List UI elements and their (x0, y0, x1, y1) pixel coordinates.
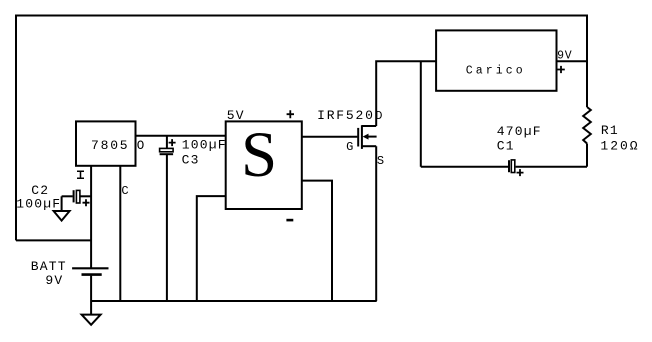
wire: S box output to MOSFET gate (302, 136, 358, 138)
wire: outer loop top (battery plus around to R1 top) (16, 16, 587, 241)
battery BATT 9V (72, 268, 108, 301)
wire: 7805 input pin down to battery (90, 166, 92, 268)
svg-text:D: D (375, 109, 382, 123)
plus marker (Carico output) (557, 66, 565, 73)
resistor R1 (583, 107, 591, 167)
minus marker (S box) (286, 219, 293, 222)
wire: Carico right pin to R1 rail (9V node) (557, 60, 588, 62)
switch module S box (226, 121, 302, 209)
wire: outer loop bottom-left to battery node (16, 239, 91, 241)
wire: S box left pin to ground rail (197, 196, 226, 301)
plus marker (S box output) (287, 110, 294, 118)
svg-text:100µF: 100µF (16, 197, 61, 212)
wire: bottom-right rail through C1 (421, 166, 587, 168)
capacitor C2 (62, 190, 92, 211)
wire: S box minus pin to ground rail (302, 181, 332, 301)
svg-text:O: O (137, 139, 145, 153)
wire: 7805 output pin to S box (5V net) (136, 135, 226, 137)
pin label I (7805 input) (77, 171, 84, 178)
svg-text:120Ω: 120Ω (600, 139, 639, 154)
svg-text:S: S (377, 154, 384, 168)
wire: MOSFET drain up to Carico node (376, 61, 436, 126)
transistor Q1 IRF520 (358, 125, 376, 149)
svg-text:IRF520: IRF520 (317, 108, 375, 123)
svg-text:100µF: 100µF (182, 137, 227, 152)
wire: ground rail (91, 300, 377, 302)
regulator U1 7805 box (76, 121, 136, 165)
capacitor C1 (509, 160, 524, 176)
svg-text:C: C (121, 184, 128, 198)
svg-text:C3: C3 (182, 152, 200, 167)
capacitor C3 (160, 136, 176, 301)
wire: junction drop from Carico-left node to C1 rail (420, 61, 422, 166)
ground (82, 301, 101, 325)
ground arrow (C2) (54, 211, 70, 221)
load Carico box (436, 30, 556, 90)
svg-text:9V: 9V (45, 273, 63, 288)
svg-text:BATT: BATT (31, 259, 67, 274)
svg-text:Carico: Carico (466, 64, 526, 77)
svg-text:470µF: 470µF (497, 124, 542, 139)
wire: MOSFET source down to ground rail (375, 146, 377, 301)
svg-text:7805: 7805 (91, 138, 129, 153)
svg-text:S: S (241, 119, 277, 191)
svg-text:G: G (346, 140, 353, 154)
wire: 7805 common pin down to ground rail (119, 166, 121, 301)
svg-text:R1: R1 (601, 123, 619, 138)
svg-text:9V: 9V (557, 49, 572, 62)
svg-text:C1: C1 (497, 139, 515, 154)
